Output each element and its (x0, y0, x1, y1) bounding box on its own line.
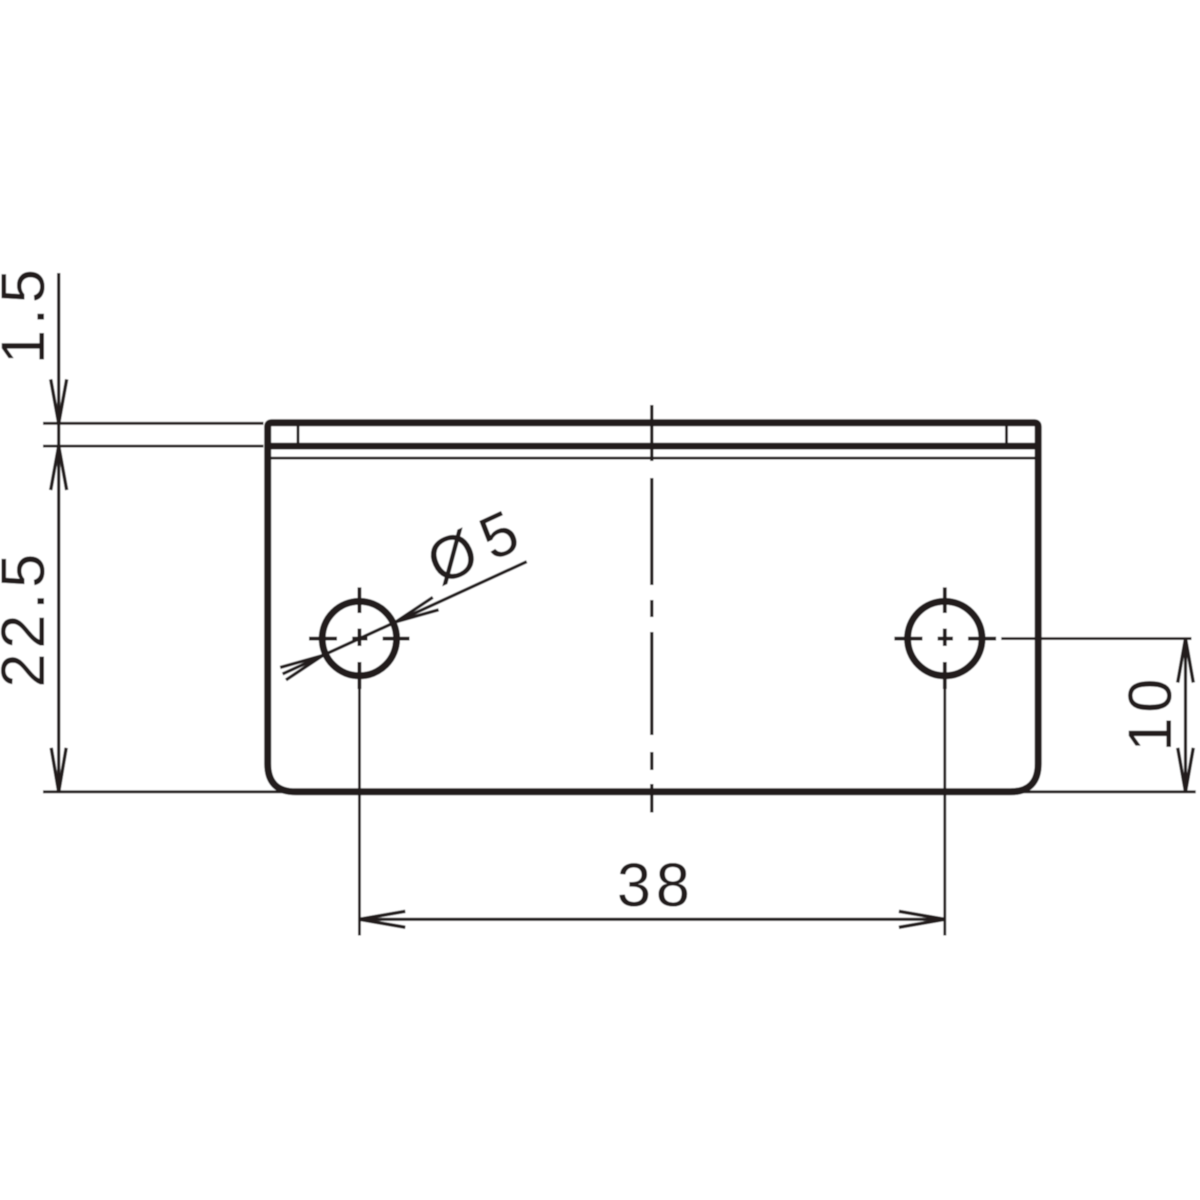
svg-text:10: 10 (1116, 674, 1184, 752)
dimension line bottom horizontal (38) (359, 918, 944, 921)
extension line right hole to 10-dim (y=638.6) (1001, 637, 1191, 640)
arrow 1.5 lower / 22.5 upper (tip up at y=446.1) (51, 446, 67, 490)
leader line for hole diameter (283, 562, 527, 674)
arrow 22.5 lower (tip down at y=791.8) (51, 748, 66, 792)
arrow 10 upper (tip up at y=638.6) (1178, 639, 1194, 683)
dimension line left vertical (1.5 and 22.5) (57, 273, 60, 792)
body outline (bracket side view) (268, 423, 1038, 792)
leader arrow lower-left (tip on circle at 322.6,655.5) (280, 656, 322, 680)
extension line top (1.5 upper, y=423.3) (43, 422, 264, 425)
hole right crosshair (894, 587, 996, 689)
flange end tick left (297, 425, 300, 445)
extension line fold (1.5 lower / 22.5 upper, y=446.1) (43, 445, 264, 448)
leader arrow upper-right (tip on circle at 396.2,621.7) (396, 597, 438, 621)
extension line bottom left (22.5 lower, y=791.8) (43, 790, 300, 793)
svg-text:1.5: 1.5 (0, 264, 57, 364)
arrow 1.5 upper (tip down at y=423.3) (51, 379, 67, 423)
arrow 10 lower (tip down at y=791.8) (1178, 748, 1194, 792)
svg-text:22.5: 22.5 (0, 549, 57, 688)
bend tangent line (thin inner line) (269, 457, 1036, 460)
hole left (circle) (322, 601, 396, 675)
hole left crosshair (309, 587, 410, 689)
arrow 38 left (tip left at x=359.4) (359, 911, 405, 927)
vertical centerline (dash-dot) (650, 405, 653, 813)
arrow 38 right (tip right at x=944.8) (899, 911, 945, 927)
flange end tick right (1005, 425, 1008, 445)
flange fold line (thick inner line) (269, 443, 1038, 450)
hole right (circle) (908, 601, 982, 675)
extension line below hole right (x=944.8) (943, 688, 946, 936)
dimension line right vertical (10) (1184, 639, 1187, 792)
extension line bottom right (10 lower, y=791.8) (1008, 790, 1196, 793)
svg-text:38: 38 (617, 851, 695, 919)
extension line below hole left (x=359.4) (358, 688, 361, 936)
